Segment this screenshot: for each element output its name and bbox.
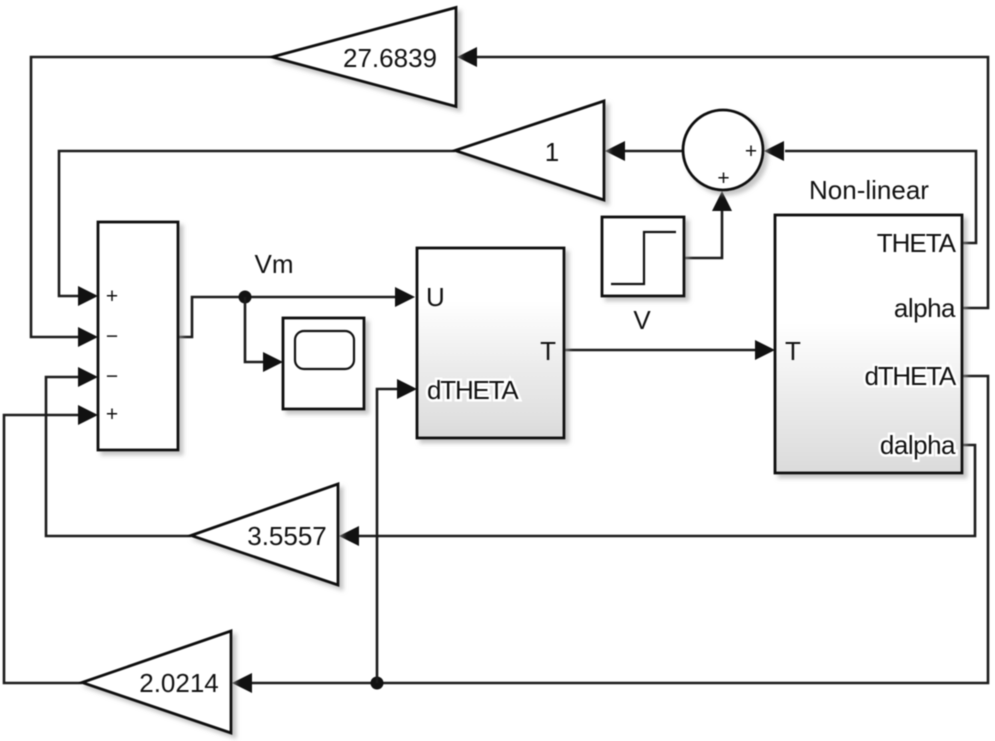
wire: dTHETA output down and left to gain 2.0214 input [232, 376, 988, 693]
wire: sum block output to motor U input (Vm net) [178, 287, 415, 337]
svg-text:V: V [633, 305, 651, 335]
svg-text:T: T [785, 336, 801, 366]
svg-text:−: − [106, 325, 118, 348]
wire: dalpha output to gain 3.5557 input [339, 445, 975, 546]
wire: gain 2.0214 output to sum block input 4 [4, 405, 98, 683]
sum circle [683, 110, 763, 190]
gain block 3.5557 [191, 484, 338, 585]
svg-text:1: 1 [545, 137, 559, 167]
svg-text:Vm: Vm [255, 249, 294, 279]
non-linear block [775, 215, 962, 473]
junction node Vm [239, 291, 252, 304]
sum block [98, 222, 178, 450]
scope block [283, 318, 364, 409]
svg-text:+: + [745, 140, 757, 163]
saturation block [602, 217, 684, 296]
svg-text:U: U [426, 282, 445, 312]
wire: sum circle output to gain 1 input [605, 141, 683, 161]
svg-text:+: + [717, 167, 729, 190]
wire: junction up to motor dTHETA input [377, 379, 417, 683]
motor block (U, T, dTHETA) [417, 248, 564, 438]
svg-text:dTHETA: dTHETA [427, 375, 519, 405]
svg-text:27.6839: 27.6839 [343, 43, 437, 73]
svg-text:alpha: alpha [894, 293, 956, 323]
svg-text:−: − [106, 365, 118, 388]
gain block 1 [455, 101, 604, 200]
svg-text:2.0214: 2.0214 [139, 668, 219, 698]
gain block 2.0214 [82, 631, 231, 733]
wire: gain 3.5557 output to sum block input 3 [46, 367, 191, 536]
svg-text:+: + [106, 285, 118, 308]
svg-text:3.5557: 3.5557 [247, 521, 327, 551]
wire: THETA output feedback to sum circle right input [764, 141, 976, 243]
svg-text:+: + [106, 403, 118, 426]
svg-text:THETA: THETA [877, 228, 957, 258]
wire: saturation block output up to sum circle bottom input [684, 191, 732, 258]
gain block 27.6839 [272, 8, 456, 107]
junction node dTHETA feedback [371, 677, 384, 690]
wire: motor T output to non-linear T input [564, 340, 775, 360]
svg-text:dTHETA: dTHETA [864, 361, 956, 391]
wire: gain 1 output to sum block input 1 [59, 151, 455, 306]
svg-text:T: T [540, 336, 556, 366]
wire: gain 27.6839 output to sum block input 2 [31, 57, 272, 347]
wire: alpha output feedback to gain 27.6839 input [457, 47, 988, 308]
svg-text:dalpha: dalpha [880, 430, 956, 460]
wire: Vm junction down to scope input [245, 297, 283, 372]
svg-text:Non-linear: Non-linear [809, 175, 929, 205]
